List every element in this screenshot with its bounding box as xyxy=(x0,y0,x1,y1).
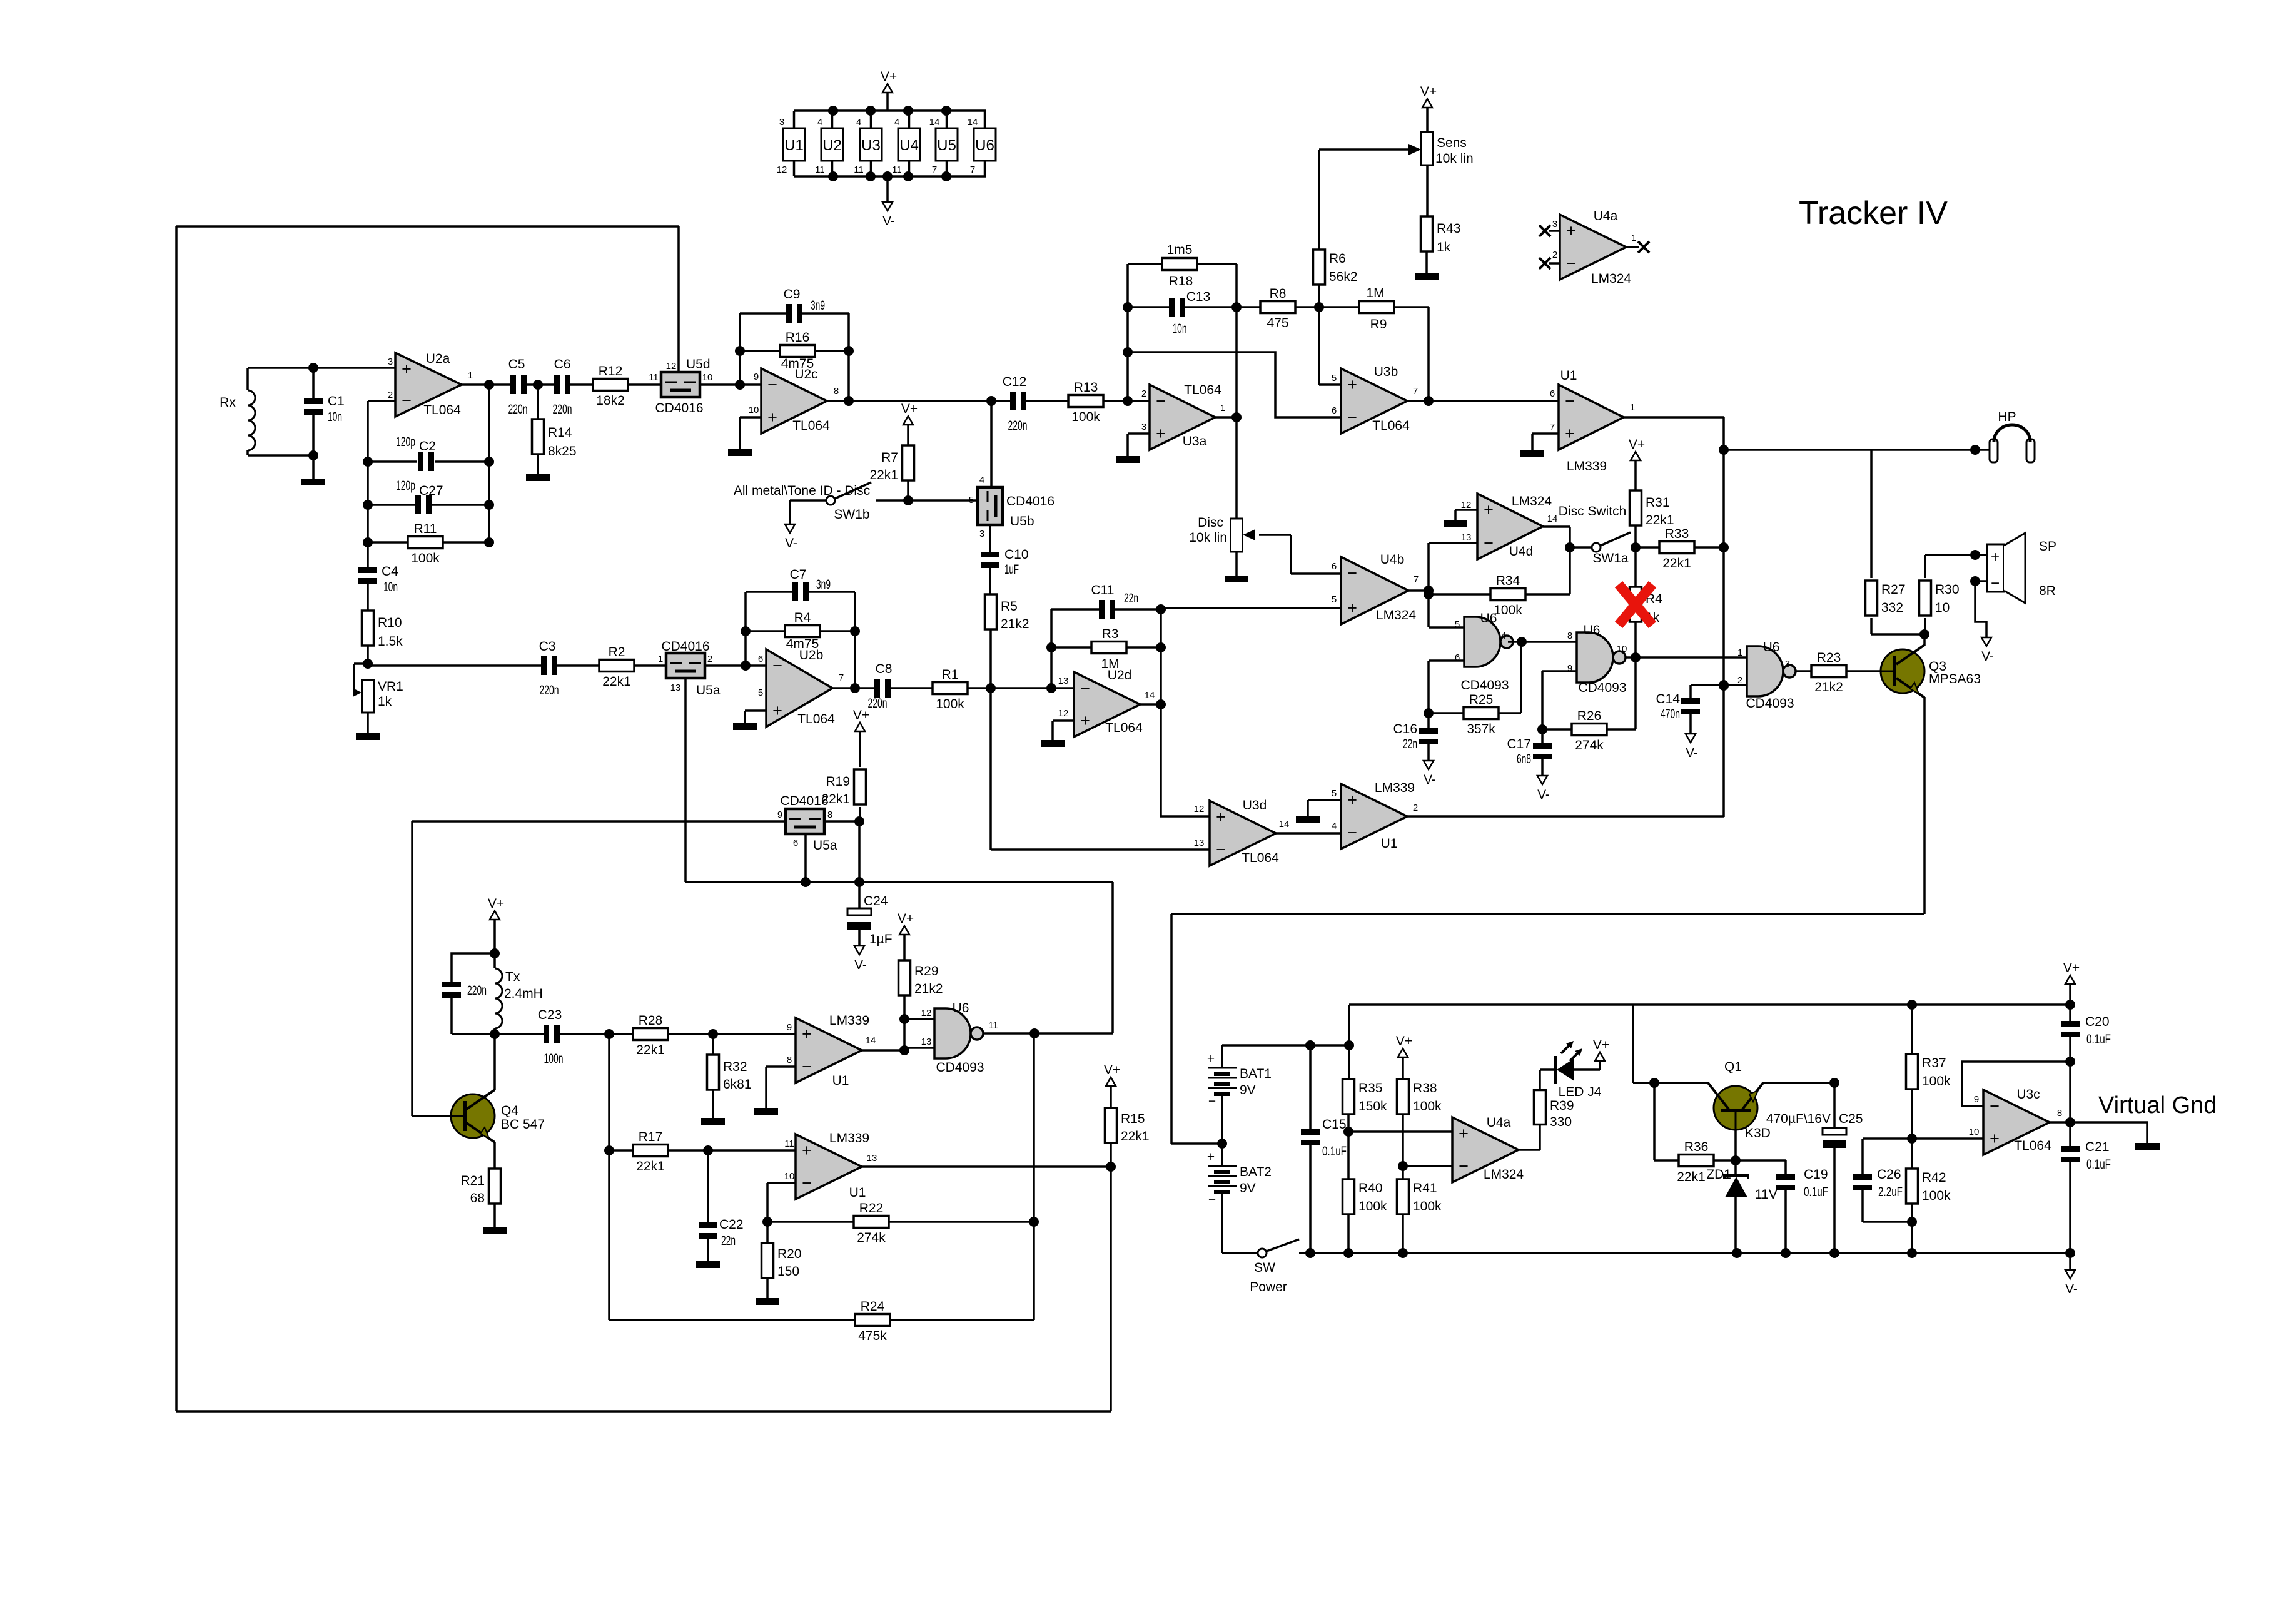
svg-text:All metal\Tone ID - Disc: All metal\Tone ID - Disc xyxy=(734,484,870,498)
wire V+ to R29 xyxy=(903,935,906,961)
ground under U4d pin12 xyxy=(1444,520,1467,527)
resistor R10 xyxy=(362,611,403,649)
svg-text:3n9: 3n9 xyxy=(811,298,825,313)
svg-text:9: 9 xyxy=(787,1022,792,1033)
resistor R17 xyxy=(633,1130,668,1174)
svg-text:7: 7 xyxy=(932,165,937,175)
wire R4 to U6 pin10 node xyxy=(1634,621,1637,657)
speaker SP xyxy=(1975,533,2056,603)
junction C5/C6/R14 xyxy=(533,380,543,390)
wire node to R9 xyxy=(1319,306,1360,308)
junction Q3 collector/R27/R30 xyxy=(1919,629,1929,639)
svg-text:1uF: 1uF xyxy=(1004,562,1019,577)
wire R14 to ground xyxy=(537,454,539,474)
junction on header top bus xyxy=(828,106,838,116)
wire R11 left xyxy=(368,541,409,544)
svg-text:C23: C23 xyxy=(538,1008,562,1022)
svg-text:120p: 120p xyxy=(396,435,415,449)
wire C1 bottom stem xyxy=(312,413,315,455)
wire C17 to V- xyxy=(1541,757,1544,776)
resistor R42 xyxy=(1906,1169,1951,1204)
ground under R14 xyxy=(526,474,550,481)
wire C3 to R2 xyxy=(557,664,600,667)
wire to R32 xyxy=(712,1034,714,1055)
wire V+ to Tx node xyxy=(493,920,496,953)
svg-text:R22: R22 xyxy=(859,1201,884,1215)
wire Rx top to C1 node xyxy=(248,367,313,369)
wire R6 node down to U3b pin5 xyxy=(1318,307,1320,385)
svg-text:9V: 9V xyxy=(1240,1181,1256,1195)
wire U6b out to U6c pin1 xyxy=(1636,656,1747,659)
svg-text:BAT2: BAT2 xyxy=(1240,1165,1272,1179)
wire U2a pin2 stub xyxy=(368,400,395,402)
svg-text:U4: U4 xyxy=(899,137,919,154)
wire R40 to bus xyxy=(1347,1214,1350,1253)
svg-text:8R: 8R xyxy=(2039,584,2056,598)
wire control line horizontal xyxy=(685,881,1113,883)
svg-text:C1: C1 xyxy=(328,394,345,409)
svg-text:R34: R34 xyxy=(1496,574,1520,588)
wire Tx node to C23 xyxy=(495,1033,545,1035)
junction U4d out/SW1a/R34 xyxy=(1565,542,1575,552)
svg-text:U5: U5 xyxy=(937,137,956,154)
svg-text:+: + xyxy=(1347,375,1357,394)
wire pin10 to ground xyxy=(739,417,741,449)
svg-text:Sens: Sens xyxy=(1437,136,1467,150)
wire switch left to V- xyxy=(789,500,791,524)
svg-text:10: 10 xyxy=(1935,601,1950,615)
svg-text:12: 12 xyxy=(1194,804,1205,815)
headphones HP xyxy=(1975,410,2035,462)
svg-text:R23: R23 xyxy=(1817,651,1841,665)
V+ above R31 xyxy=(1629,437,1645,460)
resistor R12 xyxy=(593,364,628,408)
wire pin10 down xyxy=(766,1183,769,1222)
wire bottom V- bus xyxy=(1299,1252,2070,1254)
svg-text:100k: 100k xyxy=(1494,603,1522,617)
wire to U5a2 pin9 xyxy=(412,820,786,823)
svg-text:LM339: LM339 xyxy=(829,1013,869,1028)
svg-text:C14: C14 xyxy=(1656,692,1680,706)
power header bottom bus wire xyxy=(794,175,986,178)
V+ above R7 xyxy=(901,402,918,425)
svg-text:0.1uF: 0.1uF xyxy=(1322,1144,1347,1159)
ground under Disc pot xyxy=(1225,576,1248,582)
wire emitter return rail xyxy=(1171,913,1924,915)
wire Sens to R43 xyxy=(1426,165,1429,217)
junction U3c out xyxy=(2065,1117,2075,1127)
svg-text:12: 12 xyxy=(921,1008,932,1018)
svg-text:6: 6 xyxy=(1332,561,1337,572)
wire C15 bottom stem xyxy=(1309,1143,1312,1253)
svg-text:56k2: 56k2 xyxy=(1329,270,1358,284)
wire C19 top stem xyxy=(1784,1160,1787,1177)
wire rail left drop xyxy=(1348,1005,1350,1045)
wire C9 to R16 right xyxy=(847,313,850,351)
resistor R29 xyxy=(899,960,943,996)
junction U2d pin13 xyxy=(1046,683,1056,693)
svg-text:U2d: U2d xyxy=(1108,668,1132,683)
junction Tx top xyxy=(490,948,500,958)
wire U6a pin5 stub xyxy=(1429,626,1464,629)
wire left vertical C27 to R11 xyxy=(367,505,369,542)
wire U4d pin12 stub xyxy=(1455,509,1477,511)
wire U4d out down xyxy=(1569,527,1571,547)
wire to R17 xyxy=(609,1149,634,1152)
svg-text:R4: R4 xyxy=(794,611,811,625)
wire C16 top stem xyxy=(1427,713,1430,731)
svg-text:U3: U3 xyxy=(861,137,881,154)
svg-text:K3D: K3D xyxy=(1745,1126,1771,1140)
capacitor C11 xyxy=(1091,583,1115,619)
capacitor C27 xyxy=(415,495,432,514)
wire node to C19 xyxy=(1736,1159,1786,1162)
junction C13 left xyxy=(1123,302,1133,312)
svg-text:12: 12 xyxy=(777,165,787,175)
wire C26 bottom stem xyxy=(1861,1188,1864,1222)
wire R39 to LED xyxy=(1539,1070,1541,1090)
svg-text:TL064: TL064 xyxy=(2014,1139,2051,1153)
svg-text:10k lin: 10k lin xyxy=(1189,530,1227,545)
ground under VR1 xyxy=(356,733,380,740)
svg-text:R35: R35 xyxy=(1358,1081,1383,1095)
svg-text:0.1uF: 0.1uF xyxy=(2086,1157,2111,1172)
svg-text:U6: U6 xyxy=(1584,623,1601,637)
svg-text:−: − xyxy=(772,656,782,675)
wire R13 to U3a pin2 xyxy=(1103,400,1150,402)
svg-text:R12: R12 xyxy=(599,364,623,378)
svg-text:220n: 220n xyxy=(508,402,528,417)
wire R18 right xyxy=(1196,263,1237,265)
wire to R28 xyxy=(609,1033,634,1035)
wire rail to R37 xyxy=(1911,1005,1913,1054)
wire C11 left xyxy=(1051,608,1100,611)
svg-text:13: 13 xyxy=(867,1153,877,1164)
wire pin12 to ground xyxy=(1454,510,1457,520)
ground under R20 xyxy=(756,1298,779,1305)
V+ arrow of power header xyxy=(886,93,889,111)
svg-text:+: + xyxy=(402,360,412,378)
capacitor C10 xyxy=(981,547,1029,577)
svg-text:−: − xyxy=(402,391,412,410)
svg-text:1k: 1k xyxy=(1437,240,1451,255)
svg-text:11: 11 xyxy=(854,165,864,175)
wire R9 to U3b out xyxy=(1427,307,1430,401)
svg-text:U5d: U5d xyxy=(686,357,711,372)
svg-text:C12: C12 xyxy=(1003,375,1027,389)
svg-text:6: 6 xyxy=(1550,388,1555,399)
wire V+ to R38 xyxy=(1402,1057,1404,1079)
svg-text:14: 14 xyxy=(866,1035,876,1046)
NAND gate U6c xyxy=(1737,640,1796,711)
resistor R43 xyxy=(1421,216,1461,255)
comparator U1 (osc B) xyxy=(784,1131,877,1200)
wire out to virtual ground xyxy=(2070,1122,2147,1143)
svg-text:R31: R31 xyxy=(1646,495,1670,510)
svg-text:4: 4 xyxy=(979,475,984,485)
ground under R21 xyxy=(483,1227,507,1234)
svg-text:10: 10 xyxy=(1617,644,1627,654)
svg-text:2: 2 xyxy=(1413,803,1418,813)
svg-text:CD4093: CD4093 xyxy=(1746,696,1794,711)
wire R43 to ground xyxy=(1425,251,1428,273)
svg-text:1: 1 xyxy=(468,370,473,381)
junction VR1 wiper node xyxy=(363,659,373,669)
junction U2b pin6/R4 feedback xyxy=(741,661,751,671)
wire U4a out xyxy=(1519,1149,1540,1151)
op-amp U3d xyxy=(1194,798,1290,866)
svg-text:CD4093: CD4093 xyxy=(936,1060,984,1075)
svg-text:8: 8 xyxy=(1567,631,1572,641)
svg-text:CD4093: CD4093 xyxy=(1460,678,1509,693)
resistor R37 xyxy=(1906,1054,1951,1089)
svg-text:21k2: 21k2 xyxy=(1814,680,1843,694)
wire U1 pin7 stub xyxy=(1532,432,1559,435)
resistor R16 xyxy=(780,330,815,371)
svg-text:R19: R19 xyxy=(826,774,850,789)
capacitor C8 xyxy=(868,662,893,711)
svg-text:V+: V+ xyxy=(2063,961,2080,975)
junction R7/SW1b xyxy=(903,495,913,505)
wire U4b out xyxy=(1408,589,1429,592)
wire stub xyxy=(367,664,369,666)
svg-text:274k: 274k xyxy=(857,1231,886,1245)
junction R33 right xyxy=(1719,542,1729,552)
svg-text:13: 13 xyxy=(921,1037,932,1047)
wire R18 feedback left vertical xyxy=(1126,264,1129,401)
potentiometer Sens 10k lin xyxy=(1319,132,1474,166)
wire R34 right up to switch node xyxy=(1569,547,1571,594)
svg-text:C13: C13 xyxy=(1186,290,1211,304)
svg-text:C2: C2 xyxy=(419,439,436,454)
svg-text:U1: U1 xyxy=(1560,368,1577,383)
V+ above Tx xyxy=(488,896,504,920)
wire U5b pin3 to C10 xyxy=(989,525,991,554)
svg-text:V-: V- xyxy=(2065,1282,2078,1296)
svg-text:R37: R37 xyxy=(1922,1056,1946,1070)
svg-text:14: 14 xyxy=(1547,514,1558,524)
junction C15 top xyxy=(1305,1040,1315,1050)
wire R10 to VR1 node xyxy=(367,646,369,664)
junction C26 bottom xyxy=(1907,1217,1917,1227)
svg-text:100k: 100k xyxy=(411,551,440,566)
wire R3 right xyxy=(1126,646,1161,649)
svg-text:18k2: 18k2 xyxy=(596,393,625,408)
svg-text:LM324: LM324 xyxy=(1512,494,1552,509)
comparator U1 (gate) xyxy=(1332,781,1418,851)
svg-text:V-: V- xyxy=(882,214,895,228)
junction on header bottom bus xyxy=(866,171,876,181)
V- under C17 xyxy=(1537,776,1550,802)
svg-text:U6: U6 xyxy=(1763,640,1780,654)
wire R34 right xyxy=(1525,593,1570,596)
svg-text:C10: C10 xyxy=(1004,547,1029,562)
resistor R21 xyxy=(460,1169,500,1205)
svg-text:U3a: U3a xyxy=(1183,434,1207,449)
svg-text:68: 68 xyxy=(470,1191,485,1205)
op-amp U2a xyxy=(388,352,473,417)
svg-text:R42: R42 xyxy=(1922,1170,1946,1185)
wire to C4 xyxy=(367,542,369,571)
wire R22 right xyxy=(888,1221,1034,1223)
V+ above C20 xyxy=(2063,961,2080,984)
svg-text:13: 13 xyxy=(1194,838,1205,848)
V- below bus xyxy=(2065,1270,2078,1296)
ground symbol Virtual Gnd xyxy=(2135,1143,2160,1150)
junction R15/out xyxy=(1106,1162,1116,1172)
svg-text:LM324: LM324 xyxy=(1591,272,1632,286)
junction on header top bus xyxy=(866,106,876,116)
wire C2 right xyxy=(435,460,489,463)
junction R16 right xyxy=(844,346,854,356)
wire U5a to U2b pin6 xyxy=(704,664,766,667)
junction on V- bus xyxy=(1343,1248,1353,1258)
wire outer loop bottom edge xyxy=(176,1410,1111,1413)
wire C16 to V- xyxy=(1427,742,1430,761)
svg-text:10k lin: 10k lin xyxy=(1435,151,1474,166)
analog switch U5a osc (CD4016) xyxy=(786,809,824,834)
V- under C24 xyxy=(854,946,867,972)
svg-text:R26: R26 xyxy=(1577,709,1602,723)
svg-text:2: 2 xyxy=(1141,388,1146,399)
svg-text:C9: C9 xyxy=(784,287,801,302)
junction R3 right xyxy=(1156,642,1166,652)
svg-text:0.1uF: 0.1uF xyxy=(1804,1185,1828,1199)
wire C9 right xyxy=(800,312,849,315)
svg-text:TL064: TL064 xyxy=(423,403,461,417)
svg-text:−: − xyxy=(767,375,777,394)
wire U4d out xyxy=(1543,525,1570,528)
wire U3a node to U3b pin6 xyxy=(1128,352,1341,417)
wire out up to R39 xyxy=(1539,1124,1541,1150)
junction headphone xyxy=(1970,445,1980,455)
svg-text:14: 14 xyxy=(1145,690,1155,701)
junction U6d out/R22 feedback xyxy=(1029,1028,1039,1038)
wire rail tap down to R36 xyxy=(1653,1083,1656,1160)
IC power box U4 xyxy=(892,111,920,176)
svg-text:Tx: Tx xyxy=(505,970,520,984)
svg-text:10n: 10n xyxy=(383,580,398,594)
wire node to R40 xyxy=(1347,1132,1350,1179)
svg-text:−: − xyxy=(1347,408,1357,427)
IC power box U5 xyxy=(929,111,958,176)
wire U2b out to C8 xyxy=(832,687,874,689)
op-amp U2b xyxy=(758,648,844,727)
capacitor C12 xyxy=(1003,375,1028,433)
wire 220n bottom xyxy=(450,995,453,1034)
analog switch U5b (CD4016) xyxy=(978,487,1003,525)
svg-text:10: 10 xyxy=(702,372,713,383)
svg-text:V-: V- xyxy=(1686,746,1698,760)
wire pin5 to ground xyxy=(744,711,746,723)
wire U2b pin5 stub xyxy=(745,709,766,712)
svg-text:U6: U6 xyxy=(953,1001,969,1015)
op-amp U3b xyxy=(1332,365,1418,434)
wire feedback right vertical xyxy=(847,351,850,401)
wire U1 out row xyxy=(862,1165,1111,1168)
wire to Disc pot xyxy=(1235,418,1238,519)
junction C23/R28 xyxy=(604,1029,614,1039)
wire R24 left xyxy=(609,1319,856,1321)
svg-text:5: 5 xyxy=(1332,373,1337,383)
wire C21 top stem xyxy=(2069,1122,2071,1149)
resistor R8 xyxy=(1260,287,1295,330)
capacitor C26 xyxy=(1853,1167,1903,1199)
svg-text:V+: V+ xyxy=(1396,1034,1412,1048)
wire node to R41 xyxy=(1402,1166,1404,1179)
svg-text:+: + xyxy=(1459,1124,1469,1143)
svg-text:+: + xyxy=(1080,711,1090,730)
svg-text:TL064: TL064 xyxy=(792,419,830,433)
ground under U3a pin3 xyxy=(1116,456,1140,463)
wire to Q4 base xyxy=(412,1115,452,1117)
junction R35 top xyxy=(1344,1040,1354,1050)
junction C2 right xyxy=(484,457,494,467)
svg-text:LED J4: LED J4 xyxy=(1559,1085,1602,1099)
svg-text:U2a: U2a xyxy=(426,352,450,366)
junction Rx/C1/U2a+ xyxy=(308,363,318,373)
op-amp U3c xyxy=(1969,1087,2063,1155)
svg-text:CD4093: CD4093 xyxy=(1578,681,1626,695)
wire U3d out to U1 pin4 xyxy=(1276,832,1341,835)
svg-text:6n8: 6n8 xyxy=(1517,752,1531,766)
svg-text:4m75: 4m75 xyxy=(786,637,819,651)
svg-text:1: 1 xyxy=(1220,403,1225,414)
svg-text:2: 2 xyxy=(1552,250,1557,260)
svg-text:22k1: 22k1 xyxy=(636,1159,665,1174)
wire Sens wiper vertical xyxy=(1318,150,1320,250)
svg-text:4: 4 xyxy=(894,117,899,128)
wire R27 bottom xyxy=(1870,618,1873,634)
wire C7 right xyxy=(809,591,855,593)
junction C25 top xyxy=(1829,1078,1839,1088)
wire feedback left vertical xyxy=(739,313,741,385)
svg-text:U5a: U5a xyxy=(813,838,837,853)
junction R22 left/R20 xyxy=(762,1217,772,1227)
resistor R34 xyxy=(1490,574,1525,617)
wire C22 to ground xyxy=(707,1236,709,1261)
svg-text:22n: 22n xyxy=(1124,591,1138,606)
wire Q4 emitter to R21 xyxy=(493,1142,496,1169)
junction U1 out/U6 pin13 xyxy=(899,1045,909,1055)
wire V+ to Sens xyxy=(1426,108,1429,132)
svg-text:U3d: U3d xyxy=(1243,798,1267,813)
wire BAT1- to mid xyxy=(1221,1104,1223,1144)
comparator U1 (audio) xyxy=(1550,368,1635,474)
capacitor C6 xyxy=(553,357,572,417)
svg-text:13: 13 xyxy=(670,683,681,693)
wire to headphone xyxy=(1724,449,1975,451)
svg-text:R27: R27 xyxy=(1881,582,1906,597)
battery BAT2 9V xyxy=(1207,1144,1272,1207)
resistor R39 xyxy=(1534,1090,1574,1130)
resistor R4 xyxy=(785,611,820,651)
svg-text:C19: C19 xyxy=(1804,1167,1828,1182)
svg-text:R32: R32 xyxy=(723,1060,747,1074)
svg-text:475k: 475k xyxy=(858,1329,887,1343)
svg-text:+: + xyxy=(1565,424,1575,443)
svg-text:14: 14 xyxy=(1279,819,1290,830)
svg-text:C22: C22 xyxy=(719,1217,744,1232)
wire R41 to bus xyxy=(1402,1214,1404,1253)
wire V+ to R31 xyxy=(1634,460,1637,491)
wire battery+ rail xyxy=(1222,1044,1349,1047)
wire U3a out xyxy=(1215,416,1237,419)
svg-text:8k25: 8k25 xyxy=(548,444,577,459)
svg-text:11: 11 xyxy=(784,1139,794,1149)
resistor R3 xyxy=(1091,642,1126,654)
wire pin5 to ground xyxy=(1307,800,1309,816)
